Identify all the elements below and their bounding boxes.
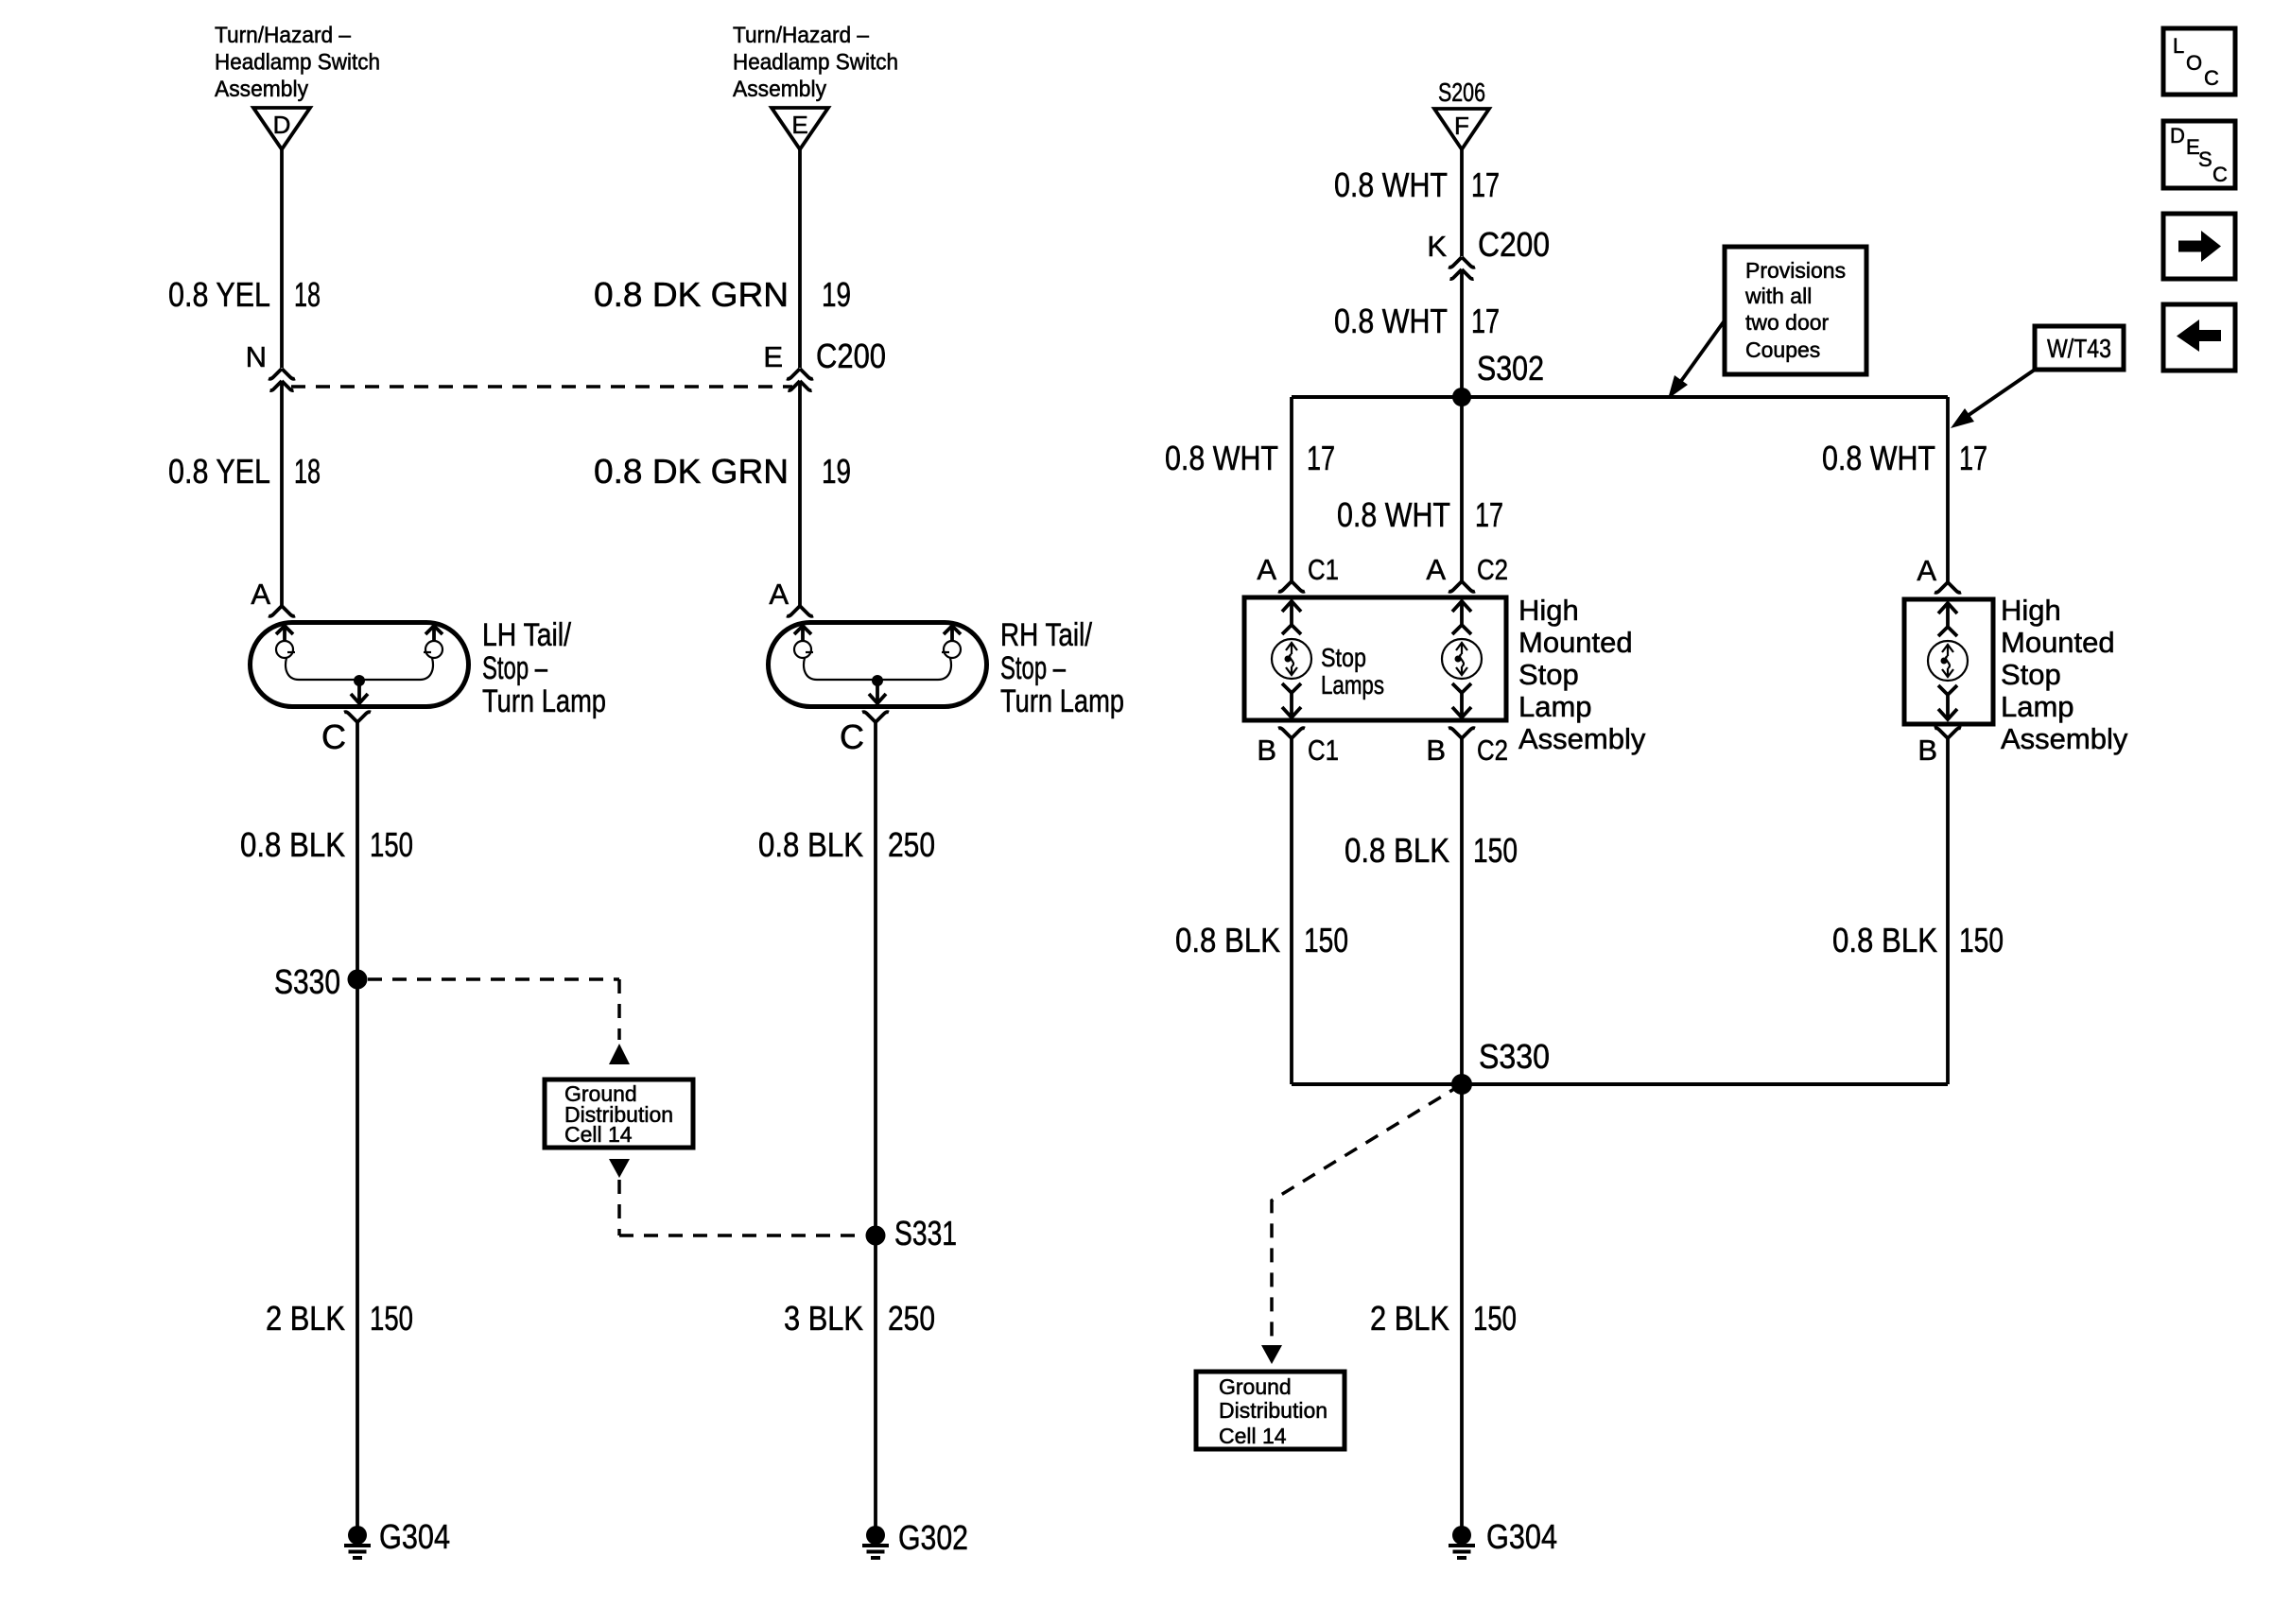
svg-text:18: 18 [294,452,321,491]
svg-text:F: F [1454,112,1469,140]
svg-text:two door: two door [1745,310,1830,335]
svg-text:0.8 WHT: 0.8 WHT [1822,439,1935,477]
svg-text:250: 250 [888,1299,935,1338]
svg-text:W/T43: W/T43 [2047,334,2111,363]
svg-text:Assembly: Assembly [2001,722,2128,755]
svg-text:0.8 WHT: 0.8 WHT [1334,302,1448,340]
svg-text:Stop: Stop [1518,658,1579,691]
svg-text:Turn Lamp: Turn Lamp [1000,683,1124,719]
svg-text:3 BLK: 3 BLK [784,1299,863,1338]
svg-text:High: High [2001,594,2061,627]
svg-text:S302: S302 [1477,349,1544,388]
svg-text:Stop: Stop [2001,658,2061,691]
svg-text:Mounted: Mounted [2001,626,2115,659]
svg-text:C: C [2204,66,2219,90]
svg-text:C: C [840,717,864,756]
svg-text:Stop: Stop [1321,643,1366,672]
svg-text:Lamps: Lamps [1321,670,1384,700]
svg-text:G302: G302 [898,1518,968,1557]
svg-text:18: 18 [294,275,321,314]
svg-text:Headlamp Switch: Headlamp Switch [733,50,898,76]
svg-text:S330: S330 [1479,1037,1550,1076]
svg-text:with all: with all [1744,284,1812,308]
svg-text:150: 150 [1959,921,2004,959]
svg-text:2 BLK: 2 BLK [1370,1299,1449,1338]
svg-text:B: B [1917,734,1937,767]
svg-text:E: E [791,111,807,139]
svg-text:N: N [246,340,267,373]
svg-text:Cell 14: Cell 14 [564,1122,633,1147]
svg-text:0.8 BLK: 0.8 BLK [1345,831,1449,870]
svg-text:Lamp: Lamp [1518,690,1592,723]
svg-text:17: 17 [1475,495,1503,534]
svg-text:S: S [2198,147,2212,171]
svg-text:150: 150 [370,825,413,864]
svg-text:A: A [769,578,789,611]
svg-text:S331: S331 [894,1214,957,1253]
svg-text:C200: C200 [816,337,886,375]
svg-text:150: 150 [370,1299,413,1338]
svg-text:17: 17 [1307,439,1335,477]
svg-text:C2: C2 [1477,734,1508,767]
svg-text:C: C [2212,163,2228,186]
svg-text:Turn/Hazard –: Turn/Hazard – [215,23,352,48]
svg-text:250: 250 [888,825,935,864]
svg-text:Coupes: Coupes [1745,337,1820,362]
svg-text:C2: C2 [1477,553,1508,586]
svg-text:0.8 DK GRN: 0.8 DK GRN [594,275,789,314]
svg-text:Headlamp Switch: Headlamp Switch [215,50,380,76]
svg-text:0.8 BLK: 0.8 BLK [1175,921,1280,959]
svg-text:C1: C1 [1308,553,1339,586]
svg-text:B: B [1257,734,1276,767]
svg-text:C: C [321,717,346,756]
svg-text:2 BLK: 2 BLK [266,1299,345,1338]
svg-text:S206: S206 [1438,78,1485,107]
svg-text:O: O [2186,51,2202,75]
svg-text:D: D [2170,124,2185,147]
svg-text:E: E [763,340,783,373]
svg-text:Ground: Ground [1219,1374,1292,1399]
svg-text:B: B [1426,734,1446,767]
svg-text:0.8 WHT: 0.8 WHT [1165,439,1278,477]
svg-text:Cell 14: Cell 14 [1219,1424,1287,1448]
svg-text:17: 17 [1471,302,1500,340]
svg-text:Stop –: Stop – [482,650,547,686]
svg-text:Assembly: Assembly [1518,722,1646,755]
svg-text:A: A [1257,553,1276,586]
svg-text:150: 150 [1473,1299,1517,1338]
svg-text:0.8 WHT: 0.8 WHT [1334,165,1448,204]
svg-text:0.8 BLK: 0.8 BLK [240,825,345,864]
svg-text:C1: C1 [1308,734,1339,767]
svg-text:150: 150 [1473,831,1518,870]
svg-text:LH Tail/: LH Tail/ [482,617,571,653]
svg-text:150: 150 [1304,921,1348,959]
svg-text:L: L [2173,34,2184,58]
svg-text:19: 19 [822,275,851,314]
svg-text:Turn Lamp: Turn Lamp [482,683,606,719]
svg-text:0.8 YEL: 0.8 YEL [168,452,270,491]
svg-text:19: 19 [822,452,851,491]
svg-text:17: 17 [1959,439,1987,477]
svg-text:0.8 BLK: 0.8 BLK [758,825,863,864]
svg-text:0.8 YEL: 0.8 YEL [168,275,270,314]
svg-text:S330: S330 [274,962,340,1001]
svg-text:Assembly: Assembly [733,77,826,102]
svg-text:Lamp: Lamp [2001,690,2074,723]
svg-text:Turn/Hazard –: Turn/Hazard – [733,23,870,48]
svg-text:A: A [1426,553,1446,586]
svg-text:Mounted: Mounted [1518,626,1633,659]
svg-text:D: D [273,111,291,139]
svg-text:Provisions: Provisions [1745,258,1846,283]
svg-text:17: 17 [1471,165,1500,204]
svg-text:0.8 DK GRN: 0.8 DK GRN [594,452,789,491]
svg-text:0.8 BLK: 0.8 BLK [1832,921,1937,959]
svg-text:G304: G304 [1486,1517,1557,1556]
svg-text:G304: G304 [379,1517,450,1556]
svg-text:Assembly: Assembly [215,77,308,102]
svg-text:C200: C200 [1478,225,1550,264]
svg-text:Distribution: Distribution [1219,1398,1327,1423]
svg-text:K: K [1427,230,1447,263]
svg-text:RH Tail/: RH Tail/ [1000,617,1092,653]
svg-text:0.8 WHT: 0.8 WHT [1337,495,1450,534]
svg-text:A: A [1917,554,1936,587]
svg-text:High: High [1518,594,1579,627]
svg-text:A: A [251,578,270,611]
svg-text:Stop –: Stop – [1000,650,1066,686]
